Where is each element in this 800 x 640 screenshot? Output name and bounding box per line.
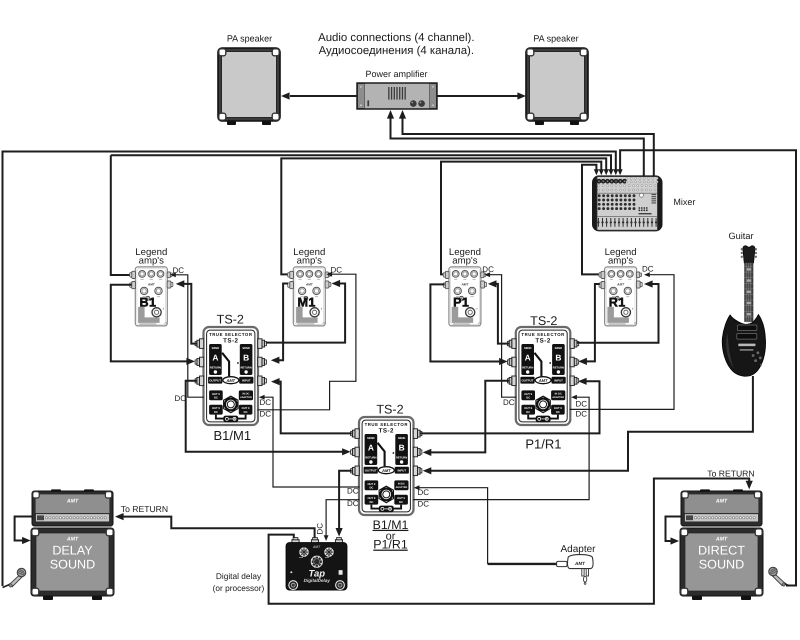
wire B1 out to left TS-2 return A (111, 285, 188, 362)
legend amp pedal B1 (130, 267, 173, 327)
svg-text:DC: DC (260, 398, 272, 407)
svg-text:(or processor): (or processor) (213, 583, 265, 593)
svg-text:DC: DC (347, 487, 359, 496)
svg-text:DC: DC (418, 500, 430, 509)
svg-text:amp's: amp's (608, 256, 633, 267)
svg-text:DIRECT: DIRECT (698, 543, 745, 557)
svg-text:Adapter: Adapter (560, 544, 596, 555)
svg-text:SOUND: SOUND (699, 557, 744, 571)
svg-text:DELAY: DELAY (52, 543, 93, 557)
svg-text:B1/M1: B1/M1 (214, 428, 252, 443)
dc wire center TS-2 to digital delay (326, 500, 359, 536)
TS-2 selector pedal right (P1/R1) (507, 327, 578, 425)
svg-text:P1: P1 (453, 295, 469, 309)
direct sound amp stack (680, 489, 763, 600)
dc wire left TS-2 to B1 (176, 275, 205, 397)
wire P1 line out to mixer (441, 162, 601, 275)
svg-text:Guitar: Guitar (728, 231, 753, 241)
dc wire left TS-2 to M1 (258, 274, 356, 410)
wire mixer out 1 to power amp (391, 119, 644, 176)
svg-text:AMT: AMT (574, 561, 586, 566)
svg-text:DC: DC (576, 410, 588, 419)
mic cable direct (785, 584, 790, 586)
guitar (722, 246, 765, 377)
svg-text:DC: DC (347, 499, 359, 508)
svg-text:P1/R1: P1/R1 (525, 436, 561, 451)
power amplifier (357, 83, 437, 109)
svg-text:To RETURN: To RETURN (707, 468, 754, 478)
svg-text:AMT: AMT (66, 499, 79, 505)
svg-text:DC: DC (503, 398, 515, 407)
wire direct head speaker out to cab (666, 517, 683, 542)
svg-text:TS-2: TS-2 (376, 403, 403, 417)
svg-text:SOUND: SOUND (50, 557, 95, 571)
wire direct-sound microphone to mixer (620, 150, 796, 585)
svg-text:DC: DC (316, 523, 325, 535)
svg-text:DC: DC (576, 400, 588, 409)
wire right TS-2 output to center return B (430, 381, 509, 453)
svg-text:B1: B1 (140, 295, 157, 309)
wire digital delay out 2 to direct amp return (269, 479, 750, 604)
svg-text:AMT: AMT (66, 537, 79, 543)
microphone (delay sound) (8, 568, 26, 587)
svg-text:PA speaker: PA speaker (227, 33, 272, 43)
svg-text:DC: DC (642, 265, 654, 274)
dc wire center TS-2 to right TS-2 (413, 397, 589, 499)
legend amp pedal P1 (443, 267, 486, 327)
wire right TS-2 send B to R1 input (577, 284, 659, 343)
legend amp pedal R1 (599, 267, 642, 327)
wire R1 out to right TS-2 return B (586, 284, 600, 361)
wire power amp to right PA speaker (437, 95, 518, 97)
wire delay-sound microphone to mixer (3, 152, 616, 587)
wire R1 line out to mixer (582, 165, 600, 275)
PA speaker left (218, 48, 280, 125)
svg-text:Audio connections (4 channel).: Audio connections (4 channel). (318, 32, 474, 44)
wire guitar to center TS-2 input (430, 376, 753, 471)
svg-text:R1: R1 (609, 295, 626, 309)
svg-text:PA speaker: PA speaker (533, 33, 578, 43)
wire mixer out 2 to power amp (403, 119, 654, 176)
svg-text:Digital delay: Digital delay (216, 571, 262, 581)
wire center send A to left TS-2 input (279, 382, 352, 434)
TS-2 selector pedal left (B1/M1) (195, 327, 266, 425)
wire center send B to right TS-2 input (420, 381, 599, 433)
svg-text:M1: M1 (298, 295, 316, 309)
dc wire right TS-2 to R1 (570, 275, 674, 410)
dc wire center TS-2 to left TS-2 (264, 397, 359, 487)
microphone (direct sound) (769, 567, 787, 586)
svg-text:DC: DC (260, 410, 272, 419)
wire B1 line out vertical (111, 155, 132, 275)
svg-text:DC: DC (175, 394, 187, 403)
wire digital delay out to delay amp return (123, 517, 314, 538)
TS-2 selector pedal center (master) (351, 417, 422, 515)
mixer (592, 175, 663, 231)
mic cable delay (3, 585, 10, 588)
svg-text:Mixer: Mixer (673, 197, 695, 207)
svg-text:AMT: AMT (715, 499, 728, 505)
wire left TS-2 send B to M1 input (266, 284, 345, 343)
svg-text:amp's: amp's (452, 256, 477, 267)
wire B1 line out to mixer (111, 155, 611, 170)
wire M1 line out to mixer (281, 158, 606, 274)
adapter cable (488, 563, 557, 565)
wire M1 out to left TS-2 return B (278, 284, 288, 361)
wire left TS-2 output to center return A (186, 381, 344, 452)
svg-text:To RETURN: To RETURN (121, 504, 168, 514)
svg-text:amp's: amp's (139, 256, 164, 267)
delay sound amp stack (31, 489, 114, 600)
digital delay pedal (286, 538, 347, 591)
wire left TS-2 send A to B1 input (184, 284, 197, 344)
svg-text:TS-2: TS-2 (217, 313, 244, 327)
svg-text:Аудиосоединения (4 канала).: Аудиосоединения (4 канала). (319, 45, 474, 57)
svg-text:P1/R1: P1/R1 (373, 538, 408, 552)
PA speaker right (526, 48, 588, 125)
svg-text:TS-2: TS-2 (530, 314, 557, 328)
wire power amp to left PA speaker (290, 95, 357, 97)
wire right TS-2 send A to P1 input (496, 284, 510, 344)
svg-text:DC: DC (418, 488, 430, 497)
svg-text:DC: DC (482, 265, 494, 274)
legend amp pedal M1 (288, 267, 331, 327)
svg-text:Power amplifier: Power amplifier (365, 69, 427, 79)
wire P1 out to right TS-2 return A (430, 284, 500, 361)
wire center TS-2 output to digital delay input (339, 471, 352, 529)
dc wire adapter to center TS-2 (419, 488, 487, 564)
svg-text:DC: DC (331, 266, 343, 275)
svg-text:DigitalDelay: DigitalDelay (304, 578, 331, 583)
svg-text:amp's: amp's (297, 256, 322, 267)
svg-text:AMT: AMT (715, 537, 728, 543)
svg-text:AMT: AMT (312, 545, 321, 549)
wire delay head speaker out to cab (15, 517, 33, 541)
dc wire right TS-2 to P1 (490, 275, 517, 398)
AC adapter (557, 555, 593, 585)
